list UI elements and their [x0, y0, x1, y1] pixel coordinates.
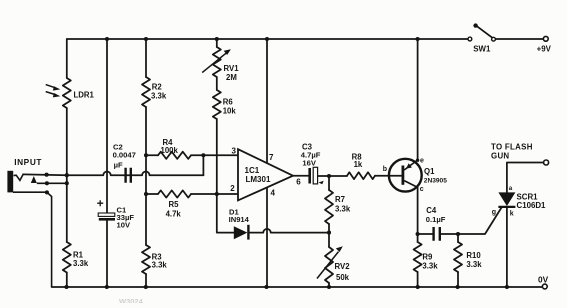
svg-text:2M: 2M — [226, 73, 237, 82]
svg-text:IN914: IN914 — [229, 215, 250, 224]
wire Q1 collector down through C4 node to R9 — [417, 187, 419, 287]
wire R2/R4/R5/R3 column — [145, 39, 147, 287]
wire Q1 emitter column from +9V rail — [417, 39, 419, 160]
svg-text:R2: R2 — [152, 83, 163, 92]
svg-text:TO FLASH: TO FLASH — [491, 142, 533, 151]
LDR1 photoresistor — [63, 78, 71, 108]
node 0V rail / SCR — [505, 285, 509, 289]
node top rail / C1 column — [105, 37, 109, 41]
svg-text:b: b — [383, 166, 387, 173]
potentiometer RV2 — [325, 247, 333, 283]
svg-text:e: e — [420, 158, 424, 165]
node jack tip — [45, 173, 49, 177]
wire C4 node to SCR gate — [458, 207, 502, 234]
potentiometer RV1 — [213, 47, 221, 77]
wire bottom 0V rail — [52, 286, 543, 288]
svg-text:10k: 10k — [223, 107, 237, 116]
svg-text:3.3k: 3.3k — [335, 205, 351, 214]
node top rail / Q1 emitter column — [416, 37, 420, 41]
resistor R3 — [142, 245, 150, 274]
svg-text:1k: 1k — [354, 160, 363, 169]
svg-text:2: 2 — [230, 184, 235, 193]
svg-text:2N3905: 2N3905 — [424, 177, 447, 184]
RV1 wiper arrow — [202, 53, 226, 73]
node D1 / R7 / RV2 — [327, 231, 331, 235]
node C3 / R7 / R8 — [327, 174, 331, 178]
capacitor C4 — [434, 227, 440, 241]
wire D1 cathode to R7/RV2 node with hop over pin4 line — [249, 229, 329, 233]
svg-text:C106D1: C106D1 — [517, 201, 547, 210]
svg-text:3.3k: 3.3k — [466, 260, 482, 269]
flash gun terminal — [544, 160, 549, 165]
wire op-amp pin 4 to 0V rail — [266, 187, 268, 287]
wire R4 right lead — [191, 154, 203, 156]
svg-text:10V: 10V — [117, 220, 131, 229]
svg-text:50k: 50k — [336, 273, 350, 282]
svg-text:3.3k: 3.3k — [422, 261, 438, 270]
svg-text:R7: R7 — [335, 195, 345, 204]
node 0V rail / R3 — [144, 285, 148, 289]
svg-text:R10: R10 — [466, 251, 481, 260]
svg-text:0.1µF: 0.1µF — [426, 215, 446, 224]
resistor R6 — [213, 90, 221, 119]
node C4 / R10 — [456, 232, 460, 236]
wire op-amp pin 7 to +9V rail — [266, 39, 268, 163]
svg-text:C4: C4 — [426, 206, 437, 215]
wire R5 leads pin 2 — [146, 193, 238, 195]
node jack sleeve — [45, 190, 49, 194]
svg-text:Q1: Q1 — [424, 167, 435, 176]
node jack ring — [45, 181, 49, 185]
svg-text:SW1: SW1 — [473, 44, 491, 53]
capacitor C2 — [126, 168, 131, 183]
capacitor C1 electrolytic — [97, 200, 115, 220]
svg-text:R6: R6 — [223, 98, 234, 107]
svg-text:INPUT: INPUT — [14, 157, 42, 167]
svg-text:3.3k: 3.3k — [152, 261, 168, 270]
svg-text:a: a — [509, 185, 513, 192]
node top rail / pin7 — [265, 37, 269, 41]
wire C3 to node, R8 leads — [319, 175, 403, 177]
node 0V rail / R1 — [64, 285, 68, 289]
node pin2 / R6 / D1 — [215, 192, 219, 196]
resistor R5 — [158, 190, 191, 197]
wire input coupling line with hops over C1 and R-column — [24, 172, 204, 176]
svg-text:RV2: RV2 — [335, 262, 351, 271]
node top rail / R2 column — [144, 37, 148, 41]
svg-text:3.3k: 3.3k — [151, 91, 167, 100]
svg-text:0.0047: 0.0047 — [113, 150, 136, 159]
node ring / LDR column — [65, 181, 69, 185]
resistor R1 — [63, 242, 71, 273]
capacitor C3 electrolytic — [310, 167, 324, 184]
diode D1 1N914 — [234, 225, 249, 240]
svg-text:+9V: +9V — [537, 45, 552, 54]
svg-text:c: c — [420, 186, 424, 193]
resistor R10 — [454, 242, 462, 272]
transistor Q1 2N3905 — [389, 159, 422, 192]
node R4 left — [144, 153, 148, 157]
node R5 left — [144, 192, 148, 196]
svg-text:LM301: LM301 — [246, 175, 271, 184]
svg-text:100k: 100k — [161, 146, 179, 155]
svg-text:µF: µF — [114, 161, 123, 170]
svg-text:7: 7 — [269, 153, 274, 162]
svg-text:RV1: RV1 — [224, 64, 240, 73]
node tip / LDR column — [65, 173, 69, 177]
svg-text:k: k — [510, 211, 514, 218]
resistor R8 — [347, 172, 375, 179]
wire pin 6 output to C3 — [293, 175, 308, 177]
resistor R2 — [142, 77, 150, 107]
wire R10 leads — [457, 234, 459, 287]
wire C2 node up to R4 right / pin3 — [202, 155, 204, 175]
node 0V rail / RV2 — [327, 285, 331, 289]
wire top +9V rail — [67, 38, 468, 40]
svg-text:R9: R9 — [422, 253, 433, 262]
svg-text:3: 3 — [232, 147, 237, 156]
wire R7 leads — [328, 176, 330, 233]
wire SW1 to +9V terminal — [495, 38, 543, 40]
svg-text:g: g — [492, 209, 496, 216]
svg-text:3.3k: 3.3k — [73, 259, 89, 268]
switch SW1 — [468, 23, 495, 41]
LDR1 light arrows — [46, 85, 56, 88]
resistor R9 — [414, 242, 422, 272]
svg-text:LDR1: LDR1 — [74, 91, 95, 100]
svg-text:GUN: GUN — [491, 151, 509, 160]
wire R4 left lead — [146, 154, 158, 156]
wire RV2 to 0V rail — [328, 233, 330, 287]
node R4 right / pin3 — [201, 153, 205, 157]
+9V terminal — [543, 36, 548, 41]
wire C4 leads — [418, 233, 458, 235]
node 0V rail / pin4 — [264, 285, 268, 289]
node 0V rail / R9 — [416, 285, 420, 289]
node top rail / RV1 — [215, 37, 219, 41]
wire SCR cathode to 0V rail — [506, 207, 508, 287]
resistor R7 — [325, 190, 333, 224]
svg-text:1C1: 1C1 — [245, 166, 260, 175]
wire RV1/R6 column — [216, 39, 218, 90]
wire R6 to pin2 and D1 anode — [217, 119, 234, 233]
wire C2/C1 column — [106, 39, 108, 287]
svg-text:R5: R5 — [169, 200, 180, 209]
node Q1 collector / C4 — [416, 232, 420, 236]
node 0V rail / C1 — [105, 285, 109, 289]
svg-text:W3024: W3024 — [119, 297, 144, 303]
input jack plug — [7, 171, 66, 287]
0V terminal — [542, 284, 547, 289]
wire pin 3 input — [203, 154, 238, 156]
svg-text:4: 4 — [271, 189, 276, 198]
RV2 wiper arrow — [317, 252, 339, 279]
op-amp IC1 LM301 — [238, 149, 293, 200]
wire SCR anode from flash terminal — [507, 163, 544, 193]
svg-text:4.7k: 4.7k — [166, 209, 182, 218]
node 0V rail / R10 — [456, 285, 460, 289]
svg-text:6: 6 — [296, 178, 301, 187]
resistor R4 — [158, 152, 191, 159]
wire left column (LDR1/R1 branch) — [66, 39, 68, 287]
svg-text:0V: 0V — [538, 275, 549, 285]
svg-text:16V: 16V — [302, 159, 316, 168]
SCR1 C106D1 — [498, 192, 515, 207]
